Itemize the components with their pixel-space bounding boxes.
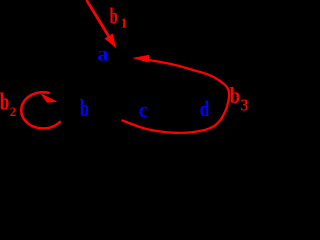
edge b3: long curve from below c around to node a xyxy=(122,60,229,133)
svg-text:b: b xyxy=(80,96,89,122)
arrowhead of edge b3 xyxy=(132,55,149,63)
svg-text:d: d xyxy=(200,97,210,122)
svg-text:3: 3 xyxy=(240,96,247,115)
svg-text:b: b xyxy=(0,89,9,115)
label b3 xyxy=(230,82,249,115)
svg-text:b: b xyxy=(230,82,241,108)
edge b1: arrow from top into node a xyxy=(87,0,112,40)
label b2 xyxy=(0,89,16,119)
svg-text:1: 1 xyxy=(121,17,128,32)
svg-text:c: c xyxy=(139,97,148,122)
edge b2: self-loop on node b xyxy=(21,92,60,128)
svg-text:a: a xyxy=(97,43,109,66)
arrowhead of edge b1 xyxy=(105,34,117,49)
label b1 xyxy=(110,3,128,32)
svg-text:b: b xyxy=(110,3,118,29)
svg-text:2: 2 xyxy=(10,104,16,119)
arrowhead of edge b2 xyxy=(40,93,58,103)
